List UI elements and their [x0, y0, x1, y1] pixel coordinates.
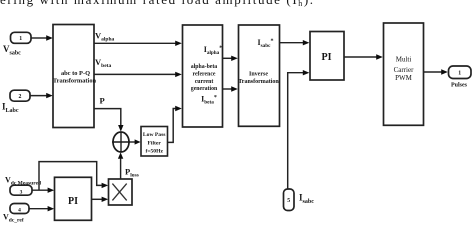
wire port3 to PI lower — [32, 189, 49, 191]
svg-text:Ialpha*: Ialpha* — [204, 45, 223, 56]
svg-text:PWM: PWM — [395, 74, 413, 82]
input port 1 — [11, 32, 32, 43]
block PI upper — [310, 32, 344, 81]
wire I_beta* to inverse block — [223, 88, 233, 90]
wire Vdc feedback branch to multiplier — [39, 162, 103, 191]
svg-text:Inverse: Inverse — [249, 72, 268, 78]
wire port5 to PI — [288, 73, 304, 189]
sum junction — [113, 132, 129, 152]
svg-text:Isabc: Isabc — [299, 193, 314, 206]
svg-text:Transformation: Transformation — [53, 78, 97, 85]
svg-text:reference: reference — [193, 72, 216, 78]
svg-text:PI: PI — [322, 52, 332, 63]
wire LPF to generation block — [168, 109, 177, 143]
svg-text:4: 4 — [18, 208, 21, 214]
svg-text:2: 2 — [19, 94, 22, 100]
output port 1 Pulses — [449, 66, 472, 79]
input port 5 — [284, 189, 295, 211]
svg-text:Filter: Filter — [148, 140, 162, 146]
svg-text:abc to P-Q: abc to P-Q — [61, 70, 90, 77]
svg-text:Multi: Multi — [396, 56, 412, 64]
wire I_sabc* to PI — [280, 42, 305, 44]
svg-text:Valpha: Valpha — [95, 30, 115, 42]
svg-text:PI: PI — [68, 196, 78, 207]
block Multi Carrier PWM — [384, 23, 424, 125]
svg-text:Ibeta*: Ibeta* — [201, 95, 217, 106]
block PI lower — [55, 177, 92, 220]
svg-text:alpha-beta: alpha-beta — [191, 64, 218, 70]
svg-text:Transformation: Transformation — [238, 79, 279, 85]
svg-text:current: current — [195, 79, 214, 85]
svg-text:Ploss: Ploss — [125, 166, 139, 178]
block alpha-beta reference current generation — [183, 25, 223, 127]
wire port2 to abc-PQ block — [30, 95, 47, 97]
wire port1 to abc-PQ block — [31, 37, 47, 39]
wire V_beta — [94, 73, 176, 75]
svg-text:ILabc: ILabc — [2, 102, 19, 115]
svg-text:3: 3 — [20, 189, 23, 195]
wire PI lower to multiplier — [92, 198, 104, 200]
wire port4 to PI lower — [29, 208, 49, 210]
wire I_alpha* to inverse block — [223, 57, 233, 59]
svg-text:Low Pass: Low Pass — [143, 132, 166, 138]
svg-text:1: 1 — [458, 71, 461, 77]
wire P to sum — [94, 109, 121, 126]
svg-text:5: 5 — [287, 198, 290, 204]
wire PI to PWM — [344, 56, 377, 58]
svg-text:generation: generation — [191, 86, 218, 92]
input port 3 — [10, 185, 32, 195]
input port 4 — [10, 204, 29, 214]
svg-text:Pulses: Pulses — [451, 82, 468, 88]
svg-text:1: 1 — [19, 36, 22, 42]
svg-text:Vbeta: Vbeta — [95, 57, 111, 69]
block abc to P-Q Transformation — [53, 25, 94, 128]
svg-text:Isabc*: Isabc* — [258, 38, 274, 49]
input port 2 — [10, 90, 30, 101]
wire PWM to output port — [424, 71, 443, 73]
wire sum to LPF — [129, 141, 136, 143]
svg-text:f=50Hz: f=50Hz — [145, 149, 163, 155]
svg-text:Carrier: Carrier — [394, 66, 414, 74]
block Inverse Transformation — [239, 25, 280, 126]
block Low Pass Filter — [141, 127, 168, 157]
svg-text:Vsabc: Vsabc — [3, 44, 21, 57]
multiplier block — [109, 179, 133, 205]
wire multiplier to sum (P_loss) — [120, 157, 122, 179]
svg-text:P: P — [100, 95, 105, 105]
svg-text:ering with maximum rated load: ering with maximum rated load amplitude … — [0, 0, 315, 8]
wire V_alpha — [94, 42, 176, 44]
